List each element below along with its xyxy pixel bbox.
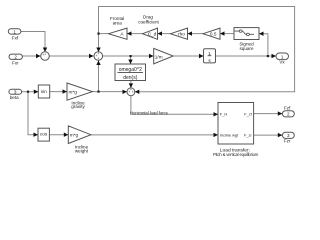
- svg-text:2: 2: [287, 112, 290, 117]
- svg-text:weight: weight: [75, 149, 89, 154]
- svg-text:Horizontal load force: Horizontal load force: [130, 111, 169, 116]
- svg-text:+: +: [44, 52, 46, 56]
- svg-text:Incline wgt: Incline wgt: [220, 132, 239, 137]
- svg-text:coefficient: coefficient: [138, 20, 159, 25]
- svg-text:1: 1: [281, 54, 284, 59]
- svg-text:m*g: m*g: [70, 132, 79, 137]
- svg-text:F_zf: F_zf: [244, 112, 252, 117]
- svg-text:omega0^2: omega0^2: [119, 67, 142, 73]
- svg-text:Fxr: Fxr: [12, 61, 19, 66]
- svg-text:2: 2: [14, 55, 17, 60]
- svg-text:Fzr: Fzr: [284, 138, 291, 143]
- svg-text:1: 1: [208, 51, 211, 56]
- svg-text:cos: cos: [40, 132, 48, 137]
- svg-text:F_H: F_H: [220, 112, 228, 117]
- svg-text:den(s): den(s): [123, 75, 138, 81]
- svg-text:m*g: m*g: [69, 89, 78, 94]
- svg-text:0.5: 0.5: [210, 32, 217, 37]
- svg-text:beta: beta: [10, 95, 19, 100]
- svg-text:C_d: C_d: [148, 32, 157, 37]
- svg-text:area: area: [113, 20, 123, 25]
- svg-text:square: square: [239, 46, 253, 51]
- svg-text:+: +: [97, 57, 99, 61]
- svg-text:sin: sin: [41, 89, 47, 94]
- svg-text:+: +: [97, 52, 99, 56]
- svg-text:Vx: Vx: [279, 60, 285, 65]
- svg-text:rho: rho: [178, 32, 185, 37]
- svg-text:+: +: [132, 90, 134, 94]
- svg-text:Fxf: Fxf: [12, 36, 19, 41]
- svg-text:Fzf: Fzf: [284, 106, 291, 111]
- svg-text:3: 3: [287, 133, 290, 138]
- svg-text:1: 1: [13, 29, 16, 34]
- svg-text:F_zr: F_zr: [244, 132, 252, 137]
- svg-text:1/m: 1/m: [155, 54, 163, 59]
- svg-text:Pitch & vertical equilibrium: Pitch & vertical equilibrium: [213, 152, 259, 157]
- svg-text:gravity: gravity: [71, 104, 85, 109]
